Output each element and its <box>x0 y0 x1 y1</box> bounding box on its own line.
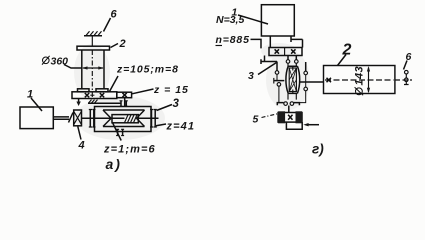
leader 3 <box>157 105 173 111</box>
leader 1 <box>238 15 268 24</box>
stem and roller c1 <box>276 62 278 71</box>
cylinder centerline <box>325 79 394 81</box>
X in belt bar right <box>291 49 295 53</box>
tool roller lower <box>405 78 409 82</box>
X in feed box <box>288 115 292 120</box>
coupling box with X <box>74 110 82 126</box>
bottom gear bars under housing <box>118 129 123 135</box>
table flange <box>77 46 110 50</box>
svg-text:3: 3 <box>248 70 254 82</box>
shaft break slash <box>69 113 74 123</box>
dia 360 label <box>43 57 50 64</box>
cylinder wall left <box>81 50 83 89</box>
bottom bracket <box>277 103 299 106</box>
rollers bottom pair <box>284 102 288 106</box>
svg-text:г): г) <box>312 142 324 157</box>
vertical shaft pinion to housing <box>124 98 126 107</box>
main horizontal shaft <box>82 117 159 119</box>
vertical worm hourglass <box>288 66 297 93</box>
svg-text:z=105;m=8: z=105;m=8 <box>116 64 179 76</box>
cylinder centerline <box>91 50 93 99</box>
cylinder wall right <box>103 50 105 89</box>
centerline tick in bar <box>90 94 94 96</box>
leader z=105 <box>110 76 119 92</box>
svg-text:143: 143 <box>354 66 366 86</box>
U bracket under feed box <box>286 122 302 129</box>
scan fog <box>74 43 310 140</box>
line A with left cap <box>261 59 277 64</box>
gear z=41 bars right of housing <box>152 110 156 128</box>
big cylinder 2 <box>324 66 395 94</box>
X mark in bar (left) <box>85 93 89 97</box>
dim line with arrows <box>83 67 103 69</box>
leader for 2 <box>111 44 119 48</box>
motor box <box>261 5 294 36</box>
leader 6 <box>404 61 408 70</box>
roller above shaft <box>305 62 307 71</box>
svg-text:N=3,5: N=3,5 <box>216 14 244 26</box>
ground hatch under bar <box>88 102 121 104</box>
leader z=1 <box>113 123 122 141</box>
below hourglass yokes <box>288 94 296 100</box>
main shaft to box <box>288 106 290 113</box>
dim line 143 <box>368 68 370 93</box>
leader z=15 <box>132 89 154 94</box>
svg-text:6: 6 <box>111 9 118 21</box>
svg-text:n=885: n=885 <box>216 34 250 46</box>
svg-text:z = 15: z = 15 <box>153 84 189 96</box>
down arrow under bar <box>78 99 80 102</box>
main shaft yokes top <box>288 56 296 60</box>
clutch plates left of housing <box>90 110 94 128</box>
X in belt bar left <box>275 49 279 53</box>
svg-text:2: 2 <box>119 38 126 50</box>
worm X-hatch band <box>292 66 294 93</box>
dim leader tail <box>64 65 82 69</box>
tool roller upper <box>405 70 409 74</box>
pinion box z=15 <box>117 92 132 98</box>
leader n=885 elbow <box>251 39 262 48</box>
right column to cylinder: shaft <box>300 81 324 83</box>
gear mesh bars on vertical shaft (top of housing) <box>121 101 126 107</box>
ring gear bar z=105 <box>72 92 117 99</box>
worm wheel (hourglass) <box>103 110 145 127</box>
svg-text:z=1;m=6: z=1;m=6 <box>103 144 156 156</box>
rollers top pair <box>286 60 290 64</box>
svg-text:а): а) <box>106 156 122 172</box>
leader 3 <box>258 63 277 75</box>
gearbox housing <box>95 107 152 132</box>
svg-text:3: 3 <box>173 98 180 110</box>
left branch drop <box>264 56 266 62</box>
X mark in pinion box <box>122 93 126 97</box>
foot pad right <box>96 89 108 92</box>
foot pad left <box>78 89 90 92</box>
worm (hatched) <box>112 115 138 123</box>
motor to belt bar link left <box>269 36 271 48</box>
motor to belt bar elbow right <box>291 36 303 48</box>
X on centerline <box>327 78 332 82</box>
centerline extension right <box>395 79 412 81</box>
svg-text:z=41: z=41 <box>166 121 196 133</box>
feed arrow <box>307 124 319 126</box>
leader z=41 <box>156 124 166 126</box>
belt drive bar <box>269 48 302 56</box>
svg-text:2: 2 <box>342 42 352 59</box>
feed box with black squares <box>278 113 302 123</box>
motor box 1 <box>20 107 53 129</box>
svg-text:5: 5 <box>253 114 259 126</box>
centerline dashes above flange <box>91 36 93 46</box>
leader 2 <box>338 55 347 66</box>
leader 1 <box>31 98 42 111</box>
leader for 6 <box>104 18 111 32</box>
underline under n <box>216 45 223 47</box>
X mark in bar (right) <box>100 93 104 97</box>
left column: line B and roller <box>274 80 285 82</box>
roller below shaft <box>305 82 307 87</box>
leader 5 (dash-dot) <box>262 114 278 118</box>
svg-text:4: 4 <box>78 140 85 152</box>
dia 143 text (rotated) <box>354 66 366 95</box>
leader 4 <box>78 127 81 140</box>
workpiece hatched pad <box>84 35 102 37</box>
motor double shaft <box>53 117 69 119</box>
